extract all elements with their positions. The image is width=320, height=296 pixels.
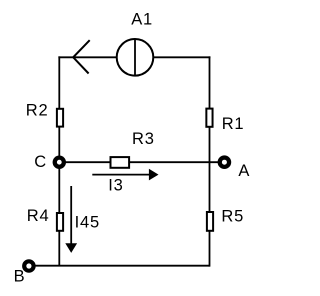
resistor R3 [111,157,130,168]
svg-text:R4: R4 [27,207,50,225]
svg-text:R5: R5 [221,207,244,225]
svg-text:R2: R2 [26,101,49,119]
current arrow I45 [65,186,77,253]
ammeter A1 [117,39,154,76]
svg-text:A1: A1 [131,11,153,29]
svg-text:B: B [14,267,26,285]
node C [53,156,66,169]
resistor R2 [57,109,63,127]
svg-text:I45: I45 [75,213,100,231]
node B [22,259,36,273]
node A [218,155,232,169]
arrow on top wire [73,40,90,73]
resistor R5 [207,212,213,231]
svg-text:C: C [34,153,47,171]
svg-text:I3: I3 [108,176,123,194]
wire top [58,56,210,58]
current arrow I3 [92,169,158,181]
wire left [58,56,60,265]
svg-text:R1: R1 [222,115,245,133]
wire right [209,56,211,266]
wire middle C to A [59,161,224,163]
resistor R4 [57,213,63,231]
svg-text:R3: R3 [132,130,155,148]
resistor R1 [206,109,212,127]
wire bottom [29,265,210,267]
svg-text:A: A [238,162,250,180]
